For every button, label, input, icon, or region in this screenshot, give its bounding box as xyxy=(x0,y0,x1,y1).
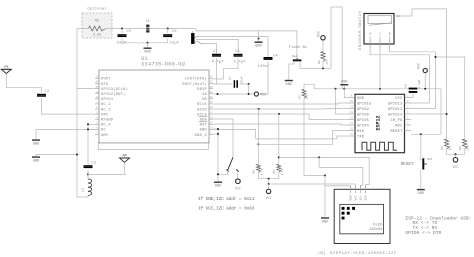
svg-text:B: B xyxy=(389,33,391,36)
svg-text:C7: C7 xyxy=(213,50,218,54)
svg-text:AMI: AMI xyxy=(101,134,108,138)
svg-text:L1: L1 xyxy=(146,19,150,23)
svg-text:S1: S1 xyxy=(397,15,401,18)
svg-text:Sw1: Sw1 xyxy=(292,55,298,58)
svg-text:GND: GND xyxy=(255,45,261,49)
svg-text:4.7µF: 4.7µF xyxy=(234,61,247,65)
svg-text:R5: R5 xyxy=(273,170,276,174)
svg-text:RFGND: RFGND xyxy=(101,119,114,123)
svg-text:Flash Bt.: Flash Bt. xyxy=(289,45,310,50)
svg-text:AM: AM xyxy=(122,155,126,159)
svg-text:10k: 10k xyxy=(305,94,309,99)
svg-text:L2: L2 xyxy=(81,188,85,192)
svg-text:RESET: RESET xyxy=(390,130,403,134)
svg-text:22nF: 22nF xyxy=(241,76,244,83)
svg-text:GND: GND xyxy=(418,192,424,196)
svg-text:GND: GND xyxy=(144,51,150,55)
svg-text:GPIO3(DCLK): GPIO3(DCLK) xyxy=(101,87,128,92)
svg-text:C: C xyxy=(379,33,381,36)
svg-text:VCC: VCC xyxy=(452,166,458,170)
svg-text:FMI: FMI xyxy=(101,113,108,117)
svg-text:GPIO13: GPIO13 xyxy=(388,102,402,106)
svg-text:VCC: VCC xyxy=(417,63,421,69)
svg-text:GND: GND xyxy=(33,160,39,164)
svg-text:C3: C3 xyxy=(92,162,97,166)
svg-text:RST: RST xyxy=(428,158,433,161)
svg-text:GPIO15: GPIO15 xyxy=(357,102,371,106)
svg-text:R4: R4 xyxy=(253,170,256,174)
svg-text:22µF: 22µF xyxy=(117,41,127,45)
svg-text:GND: GND xyxy=(350,195,353,201)
svg-text:GND: GND xyxy=(322,221,328,225)
svg-text:R1: R1 xyxy=(441,146,444,150)
svg-text:U3]: U3] xyxy=(318,251,325,256)
svg-text:GPIO12: GPIO12 xyxy=(388,108,402,112)
svg-text:TXD: TXD xyxy=(357,135,364,139)
svg-text:4.7k: 4.7k xyxy=(280,168,284,175)
svg-text:0.1µF: 0.1µF xyxy=(418,79,421,88)
svg-text:SI4735-D60-GU: SI4735-D60-GU xyxy=(141,61,185,67)
svg-text:OLED: OLED xyxy=(373,223,383,227)
svg-text:RCLK: RCLK xyxy=(197,103,207,107)
svg-text:GPIO2(DNT): GPIO2(DNT) xyxy=(101,92,126,97)
svg-text:If GND,I2C addr = 0x11: If GND,I2C addr = 0x11 xyxy=(198,196,255,202)
svg-text:GND: GND xyxy=(200,129,208,133)
svg-text:GND: GND xyxy=(341,81,347,85)
svg-text:VCC: VCC xyxy=(317,31,321,37)
svg-text:RST: RST xyxy=(200,124,208,128)
svg-text:If VCC,I2C addr = 0x63: If VCC,I2C addr = 0x63 xyxy=(198,206,255,212)
svg-text:NC_4: NC_4 xyxy=(101,124,111,128)
svg-text:GND: GND xyxy=(286,83,292,87)
svg-text:10k: 10k xyxy=(325,59,329,65)
svg-text:GND: GND xyxy=(33,143,39,147)
svg-text:GND: GND xyxy=(357,97,364,101)
svg-text:VA: VA xyxy=(202,93,207,97)
svg-text:GPIO2: GPIO2 xyxy=(357,108,369,112)
svg-text:C8: C8 xyxy=(235,50,240,54)
svg-text:C5: C5 xyxy=(127,30,132,34)
svg-text:LOUT(DFS): LOUT(DFS) xyxy=(185,77,207,82)
svg-text:GPIO5: GPIO5 xyxy=(357,119,369,123)
svg-text:VCC: VCC xyxy=(395,97,402,101)
svg-text:RESET: RESET xyxy=(401,162,414,167)
svg-text:4.7k: 4.7k xyxy=(260,168,264,175)
svg-text:GPIO0: GPIO0 xyxy=(357,113,369,117)
svg-text:C1: C1 xyxy=(229,77,232,81)
svg-text:VCC: VCC xyxy=(266,197,272,201)
svg-text:GND: GND xyxy=(215,185,221,189)
svg-text:GPIO1: GPIO1 xyxy=(101,98,114,102)
svg-text:DFS: DFS xyxy=(101,83,109,87)
svg-text:R3: R3 xyxy=(95,20,99,24)
svg-text:SCL: SCL xyxy=(360,195,363,201)
svg-text:SDIO: SDIO xyxy=(197,108,207,112)
svg-text:NC_3: NC_3 xyxy=(101,108,111,112)
svg-text:NC: NC xyxy=(101,129,106,133)
svg-text:10k: 10k xyxy=(466,145,470,151)
svg-text:R7: R7 xyxy=(299,95,302,99)
svg-text:C4: C4 xyxy=(273,55,278,59)
svg-text:ENCODER-SWITCH: ENCODER-SWITCH xyxy=(359,11,363,50)
svg-text:ADC: ADC xyxy=(395,124,402,128)
svg-text:VCC: VCC xyxy=(235,187,241,191)
svg-text:A: A xyxy=(369,33,371,36)
svg-text:RXD: RXD xyxy=(357,130,364,134)
svg-text:VCC: VCC xyxy=(260,93,266,97)
svg-text:DISPLAY-OLED-128X64-I2C: DISPLAY-OLED-128X64-I2C xyxy=(330,252,397,256)
svg-text:C9: C9 xyxy=(404,84,407,88)
svg-text:10k: 10k xyxy=(448,145,452,151)
svg-text:128x64: 128x64 xyxy=(369,228,383,232)
svg-text:DOUT: DOUT xyxy=(101,78,111,82)
svg-text:Optional: Optional xyxy=(87,7,107,12)
svg-text:ROUT(DouT): ROUT(DouT) xyxy=(182,82,207,87)
svg-text:NC_2: NC_2 xyxy=(101,103,111,107)
svg-text:GND_2: GND_2 xyxy=(195,134,207,138)
svg-text:R6: R6 xyxy=(318,60,321,64)
svg-text:VD: VD xyxy=(202,98,207,102)
svg-text:CH_PD: CH_PD xyxy=(390,119,402,123)
svg-text:GPIO14: GPIO14 xyxy=(388,113,402,117)
svg-text:C2: C2 xyxy=(45,90,50,94)
svg-text:GPIO4: GPIO4 xyxy=(357,124,369,128)
svg-text:2.2k: 2.2k xyxy=(93,33,101,38)
svg-text:C6: C6 xyxy=(172,30,177,34)
svg-text:R2: R2 xyxy=(459,146,462,150)
svg-text:SDA: SDA xyxy=(365,195,368,201)
svg-text:VCC: VCC xyxy=(355,195,358,201)
svg-text:DBYP: DBYP xyxy=(197,88,207,92)
svg-text:22µF: 22µF xyxy=(170,41,180,45)
svg-text:GPIO0 <-> DTR: GPIO0 <-> DTR xyxy=(406,230,442,236)
svg-text:FM: FM xyxy=(4,66,8,70)
svg-text:ESP12: ESP12 xyxy=(376,115,382,130)
svg-text:4.7µF: 4.7µF xyxy=(212,61,225,65)
